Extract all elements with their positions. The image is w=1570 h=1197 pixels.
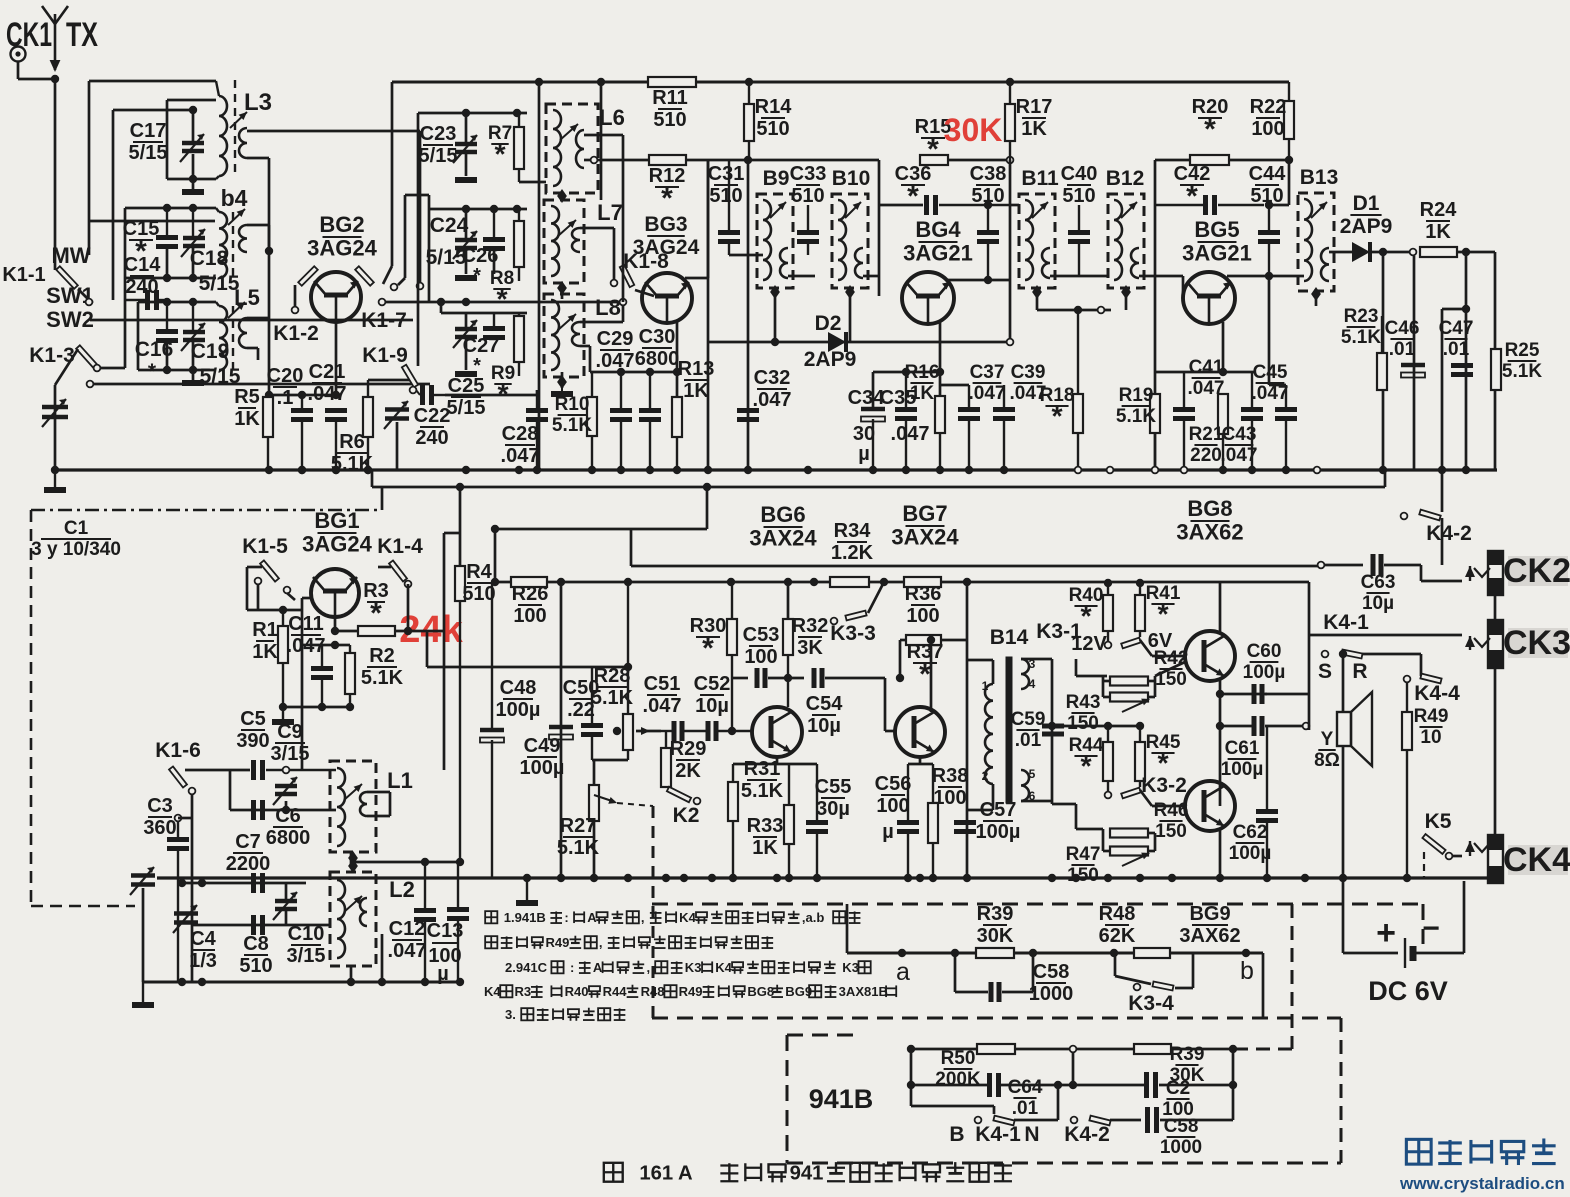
svg-text:C11: C11 [288, 613, 324, 635]
svg-text:1.2K: 1.2K [831, 542, 874, 564]
label pin5 [1029, 767, 1036, 781]
junction bus [1379, 466, 1387, 474]
svg-text:BG3: BG3 [644, 213, 687, 236]
wire c60 row [1220, 693, 1267, 696]
resistor R32 [783, 619, 793, 707]
svg-text:K4-2: K4-2 [1064, 1123, 1110, 1146]
wire antenna to junction [18, 78, 55, 81]
wire k15 b [287, 593, 295, 600]
resistor R6 [363, 380, 373, 470]
junction audio bus [963, 874, 971, 882]
node e2 [298, 391, 306, 399]
resistor R38 [928, 764, 938, 878]
svg-text:3AX81B: 3AX81B [839, 984, 888, 999]
note line2 [485, 935, 773, 950]
capacitor C37 [958, 385, 980, 470]
wire b14 p2b [967, 809, 993, 812]
label R34lbl [831, 520, 874, 564]
wire r3 right [395, 630, 427, 633]
wire c58 loop l [954, 953, 957, 992]
svg-text:3AG21: 3AG21 [903, 241, 973, 266]
inductor L8 secondary [572, 322, 580, 346]
junction bus [1438, 466, 1446, 474]
frame gang left [30, 510, 33, 906]
resistor R2 [345, 645, 355, 707]
wire r24 right [1457, 251, 1495, 254]
capacitor C53 [757, 668, 765, 688]
node c2r [1229, 1081, 1237, 1089]
svg-text:K1-2: K1-2 [273, 322, 319, 345]
wire b14 top [967, 659, 993, 662]
svg-text:C33: C33 [790, 163, 827, 185]
label C22 [414, 405, 451, 449]
wire upper coll [1219, 583, 1222, 632]
inductor L5 primary [216, 302, 227, 370]
label R42b [0, 0, 1, 1]
svg-text:.01: .01 [1015, 730, 1042, 751]
label L5 [234, 285, 260, 310]
node c24a [462, 205, 470, 213]
inductor L1 primary [337, 768, 345, 846]
label K1-2 [273, 322, 319, 345]
inductor B14 sec bot [1021, 770, 1029, 801]
capacitor C25b [483, 313, 505, 338]
label C48 [496, 677, 541, 721]
wire bg3 coll up [707, 160, 710, 278]
svg-text:62K: 62K [1099, 925, 1136, 947]
inductor B12 secondary [1131, 248, 1139, 278]
svg-text:C40: C40 [1061, 163, 1098, 185]
svg-text:K4: K4 [484, 984, 501, 999]
contact K1-2 top [417, 283, 424, 290]
ground osc [132, 982, 154, 1005]
node a [898, 949, 906, 957]
svg-text:R47: R47 [1066, 844, 1101, 865]
contact r24l [1410, 249, 1417, 256]
diamond B12 bottom [1121, 285, 1131, 299]
node gr2 [318, 703, 326, 711]
svg-text:R5: R5 [234, 386, 260, 408]
wire second bus [372, 486, 1385, 489]
svg-text:*: * [927, 133, 939, 166]
node rail r17 [1006, 78, 1014, 86]
wire base drop [301, 598, 304, 631]
label CK3 [1503, 624, 1570, 662]
contact K1-7 [379, 299, 386, 306]
node C17 bottom [189, 175, 197, 183]
node n1140b [1136, 722, 1144, 730]
label C12 [388, 918, 427, 962]
resistor R8 [514, 209, 524, 281]
wire L5 sec top [247, 317, 269, 320]
core L3 dashed [234, 80, 236, 176]
node c35 [902, 368, 910, 376]
wire audio bus [157, 876, 1504, 879]
contact r50 oc [1070, 1046, 1077, 1053]
trimmer arrow B9 [770, 202, 786, 218]
wire bias low [1075, 804, 1078, 829]
node c7b [198, 879, 206, 887]
resistor R34 [830, 577, 869, 587]
svg-text:,a.b: ,a.b [802, 910, 825, 925]
label C6 [266, 805, 311, 849]
svg-text:2K: 2K [675, 760, 701, 782]
wire C17 block left [166, 100, 169, 179]
svg-text:100µ: 100µ [1221, 759, 1264, 780]
wire c53 c54 [768, 677, 804, 680]
label C55 [815, 776, 852, 820]
node sec mid [1048, 722, 1056, 730]
capacitor C33 [797, 205, 819, 255]
wire c60 r [1265, 693, 1309, 696]
wire k33 drop [868, 582, 884, 613]
label C64 [1008, 1077, 1043, 1119]
wire k34 loop2 [1115, 976, 1151, 984]
svg-text:150: 150 [1067, 865, 1099, 886]
wire bg7 coll [930, 640, 933, 712]
label C20 [267, 365, 304, 409]
junction audio bus [1136, 874, 1144, 882]
wire c4a [142, 888, 145, 982]
svg-text:B14: B14 [990, 626, 1029, 649]
wire sec top lead [1021, 658, 1052, 661]
label R22 [1250, 96, 1287, 140]
node c23a [462, 109, 470, 117]
wire r43 loop l2 [1103, 696, 1110, 699]
wire bg1 e2 [334, 644, 337, 647]
svg-text:BG9: BG9 [785, 984, 812, 999]
wire b11 stub [1036, 288, 1039, 310]
svg-text:BG8: BG8 [1187, 496, 1232, 521]
svg-text:510: 510 [239, 955, 272, 977]
svg-text:C30: C30 [639, 326, 676, 348]
svg-text:K4-4: K4-4 [1414, 682, 1460, 705]
ground C27 [455, 371, 477, 377]
svg-text:1K: 1K [1425, 221, 1451, 243]
wire b4 sec top [247, 224, 269, 227]
lever K1-9 [402, 365, 418, 388]
label CK1 [6, 16, 52, 54]
lever K1-4 [389, 560, 407, 581]
label 30u [853, 423, 875, 465]
frame gang top [31, 509, 382, 512]
trimmer arrow L5 [228, 302, 245, 318]
arrow R27 tap [594, 795, 617, 804]
svg-text:100µ: 100µ [1229, 843, 1272, 864]
node ab2 [1029, 949, 1037, 957]
svg-text:3AX24: 3AX24 [891, 525, 959, 550]
ground C17 [182, 189, 204, 195]
label R32 [792, 615, 829, 659]
svg-text:R48: R48 [1099, 903, 1136, 925]
wire c58 loop r [1002, 991, 1033, 994]
wire d2 line [708, 341, 1006, 344]
node v601 [597, 78, 605, 86]
inductor B13 primary [1304, 199, 1312, 281]
capacitor C43 [1241, 372, 1263, 470]
svg-text:1/3: 1/3 [189, 950, 217, 972]
svg-text:C46: C46 [1385, 318, 1420, 339]
node v911a [907, 1081, 915, 1089]
svg-text:5.1K: 5.1K [1341, 327, 1381, 348]
junction bus [462, 466, 470, 474]
wire c39 top [1003, 384, 1006, 387]
wire c64 line [911, 1084, 987, 1087]
node n495 [491, 525, 499, 533]
label B bottom [949, 1123, 964, 1146]
capacitor C56 [897, 764, 919, 878]
lever K4-4 [1420, 674, 1441, 684]
wire k11 to sw1 [78, 289, 88, 299]
label R47 [1066, 844, 1101, 886]
capacitor C39 [993, 385, 1015, 470]
diamond L7 bot [557, 281, 567, 295]
inductor L7 primary [551, 206, 559, 276]
label R6 [331, 431, 374, 475]
label TX [66, 16, 98, 54]
capacitor C4 gang b [173, 905, 198, 933]
diamond B11 bottom [1032, 285, 1042, 299]
wire k14 drop [407, 584, 410, 631]
label K1-9 [362, 344, 408, 367]
svg-text:C38: C38 [970, 163, 1007, 185]
junction audio bus [1072, 874, 1080, 882]
node r15r [1007, 157, 1014, 164]
label pin4 [1029, 677, 1036, 691]
label minus [1422, 912, 1440, 945]
lever K3-3 [845, 611, 866, 621]
node r6 [265, 466, 273, 474]
junction osc bus [456, 978, 464, 986]
wire L7 sec top [580, 227, 614, 230]
node d1 out [1379, 248, 1387, 256]
node c30 [646, 368, 654, 376]
label C4 [189, 928, 217, 972]
inductor L2 secondary [360, 898, 367, 926]
node c60r [0, 0, 1, 1]
dash v1341 [1340, 1018, 1343, 1163]
wire r28 base [636, 730, 661, 733]
wire bg6 emit [776, 757, 779, 764]
node c24c [513, 205, 521, 213]
wire b9 bottom [729, 254, 763, 257]
transformer L1 box [330, 761, 376, 852]
capacitor C20 [291, 395, 313, 470]
capacitor C63 [1373, 554, 1381, 576]
wire c23 stem [465, 113, 468, 143]
jack CK4 [1488, 835, 1503, 883]
wire r20 left [1155, 159, 1190, 162]
wire bat r [1416, 952, 1464, 955]
wire c24 stem [465, 209, 468, 239]
wire k41 line [1309, 634, 1462, 637]
svg-text:5.1K: 5.1K [591, 687, 634, 709]
wire v1309 [1308, 582, 1311, 730]
capacitor C18 trimmer [181, 208, 205, 257]
svg-text:*: * [702, 632, 714, 665]
svg-text:K1-9: K1-9 [362, 344, 408, 367]
trimmer arrow L8 [558, 314, 576, 330]
inductor L3 primary [216, 81, 227, 179]
label R48 [1099, 903, 1136, 947]
wire k16 line [185, 769, 250, 772]
inductor L2 primary [337, 880, 345, 958]
svg-text:.047: .047 [643, 695, 682, 717]
wire rail582 [495, 581, 1309, 584]
wire l1 bot up [350, 852, 353, 866]
wire bias top [1076, 675, 1107, 678]
wire K1-3 down [54, 385, 57, 470]
node c50t [624, 663, 632, 671]
svg-text:3AG21: 3AG21 [1182, 241, 1252, 266]
label R41 [1146, 583, 1181, 631]
wire K13a2 [124, 278, 127, 368]
capacitor C19 trimmer [181, 302, 205, 351]
wire bg1 base osc [301, 631, 304, 770]
wire v1233 [1232, 1049, 1235, 1120]
label C54 [806, 693, 844, 737]
node r20r [1285, 156, 1293, 164]
wire bg5 coll [1227, 275, 1269, 278]
resistor R43b [1110, 693, 1148, 702]
wire k34 loop [1114, 953, 1117, 976]
svg-text:R39: R39 [1170, 1044, 1205, 1065]
wire c3435 row [873, 371, 940, 374]
contact spk line [1303, 723, 1310, 730]
svg-text:C64: C64 [1008, 1077, 1043, 1098]
label R30 [690, 615, 727, 665]
lever K4-1 [1342, 650, 1363, 659]
wire b11 sec low [1050, 275, 1108, 278]
wire v495 [494, 529, 497, 582]
label R20 [1192, 96, 1229, 146]
node gr [279, 703, 287, 711]
wire L5 sec bot [247, 347, 258, 350]
svg-text:R14: R14 [755, 96, 793, 118]
svg-text:C61: C61 [1225, 738, 1260, 759]
svg-text:K1-7: K1-7 [361, 309, 407, 332]
junction audio bus [904, 874, 912, 882]
core L5 dashed [232, 306, 234, 370]
resistor R17 [1005, 82, 1015, 160]
contact d2r [1007, 339, 1014, 346]
svg-text::: : [570, 960, 574, 975]
transformer L2 box [330, 872, 376, 966]
resistor R16 [935, 396, 945, 470]
svg-text:C10: C10 [288, 923, 325, 945]
svg-text:R25: R25 [1505, 340, 1540, 361]
label R39 [977, 903, 1014, 947]
svg-text:5/15: 5/15 [419, 145, 458, 167]
label R10 [552, 394, 592, 436]
svg-text:5/15: 5/15 [426, 246, 467, 269]
svg-text:8Ω: 8Ω [1314, 750, 1340, 771]
svg-text:161 A: 161 A [639, 1162, 693, 1184]
label K1-1 [2, 264, 45, 286]
label C50 [563, 677, 600, 721]
wire b4 sec vert [268, 225, 271, 251]
node k17 [437, 298, 445, 306]
wire audio out [1321, 564, 1363, 567]
svg-text:C56: C56 [875, 773, 912, 795]
junction osc bus [421, 978, 429, 986]
capacitor C36 [927, 195, 1011, 215]
wire upper emit [1219, 680, 1222, 806]
label C30 [635, 326, 680, 370]
wire k42b right [1110, 1119, 1141, 1122]
note line4 [484, 984, 896, 999]
wire c61 row [1220, 725, 1252, 728]
capacitor C11 [311, 645, 333, 707]
svg-text:C31: C31 [708, 163, 745, 185]
node r1t [279, 606, 287, 614]
svg-text:1K: 1K [683, 380, 709, 402]
label R3 [363, 580, 389, 630]
node SW1 contact [86, 299, 93, 306]
diamond L1 bot [348, 851, 358, 865]
contact K4-2b o [1071, 1117, 1078, 1124]
label C45 [1252, 362, 1289, 404]
wire b4 left [124, 208, 127, 221]
wire k32 link [1140, 790, 1152, 806]
label C36 [895, 163, 932, 213]
resistor R47b [1110, 847, 1148, 856]
resistor R39b [1134, 1044, 1171, 1054]
lever K3-2 [1121, 788, 1141, 799]
wire bg1 left [247, 566, 262, 569]
capacitor C13 [447, 862, 469, 982]
wire c24 feed jog [398, 278, 405, 285]
svg-text:B13: B13 [1300, 166, 1339, 189]
wire L5 bottom [138, 369, 216, 372]
svg-text:3AX24: 3AX24 [749, 526, 817, 551]
label R17 [1016, 96, 1053, 140]
junction audio bus [1263, 874, 1271, 882]
svg-text:K3-4: K3-4 [1128, 992, 1174, 1015]
label BG8 [1176, 496, 1243, 545]
wire c3 wire [178, 817, 192, 820]
wire l1 right [367, 791, 390, 794]
diamond L7 top [557, 189, 567, 203]
label C13 [427, 920, 464, 985]
svg-text:K4-1: K4-1 [1323, 611, 1369, 634]
junction audio bus [708, 874, 716, 882]
contact K1-3 b [87, 381, 94, 388]
contact K1-5a [255, 578, 262, 585]
wire spk top [1342, 653, 1345, 712]
junction osc bus [178, 978, 186, 986]
wire b9 sec low [788, 275, 815, 278]
svg-text:A: A [593, 960, 603, 975]
wire C17 gnd stem [192, 179, 195, 190]
label BG7 [891, 501, 959, 550]
label C32 [753, 367, 792, 411]
wire L6 sec top [584, 134, 623, 137]
wire C16 bot [166, 342, 169, 370]
wire v967c [966, 810, 969, 878]
label pin3 [1029, 657, 1036, 671]
capacitor C29 [610, 372, 632, 470]
capacitor C49 [549, 727, 573, 740]
switch K1-2 contact [292, 307, 299, 314]
label R21 [1189, 424, 1224, 466]
svg-text:.01: .01 [1389, 339, 1416, 360]
node n1140 [1136, 579, 1144, 587]
wire c28 top [445, 394, 537, 397]
label K1-8 [623, 250, 669, 273]
trimmer arrow L7 [558, 220, 576, 236]
svg-text:C47: C47 [1439, 318, 1474, 339]
